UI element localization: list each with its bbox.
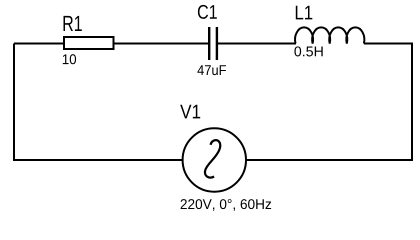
label V1: [180, 105, 200, 119]
value 47uF: [197, 65, 226, 75]
wire L1 to top-right corner: [364, 43, 411, 45]
wire right side: [411, 43, 413, 161]
label L1: [296, 6, 313, 20]
wire top-left from left corner to R1: [14, 43, 64, 45]
wire R1 to C1: [114, 43, 209, 45]
wire V1 to bottom-left: [13, 159, 182, 161]
label R1: [63, 16, 81, 31]
source V1 circle: [183, 128, 246, 191]
value 220V, 0deg, 60Hz: [181, 199, 272, 211]
capacitor C1 right plate: [216, 27, 218, 60]
source V1 sine symbol: [205, 140, 220, 177]
inductor L1: [295, 27, 364, 43]
wire bottom-right to V1: [247, 159, 414, 161]
wire left side: [13, 44, 15, 162]
value 10: [63, 54, 76, 64]
value 0.5H: [294, 46, 322, 56]
wire C1 to L1: [218, 43, 296, 45]
capacitor C1 left plate: [208, 27, 210, 60]
resistor R1: [64, 37, 114, 49]
label C1: [198, 5, 217, 19]
